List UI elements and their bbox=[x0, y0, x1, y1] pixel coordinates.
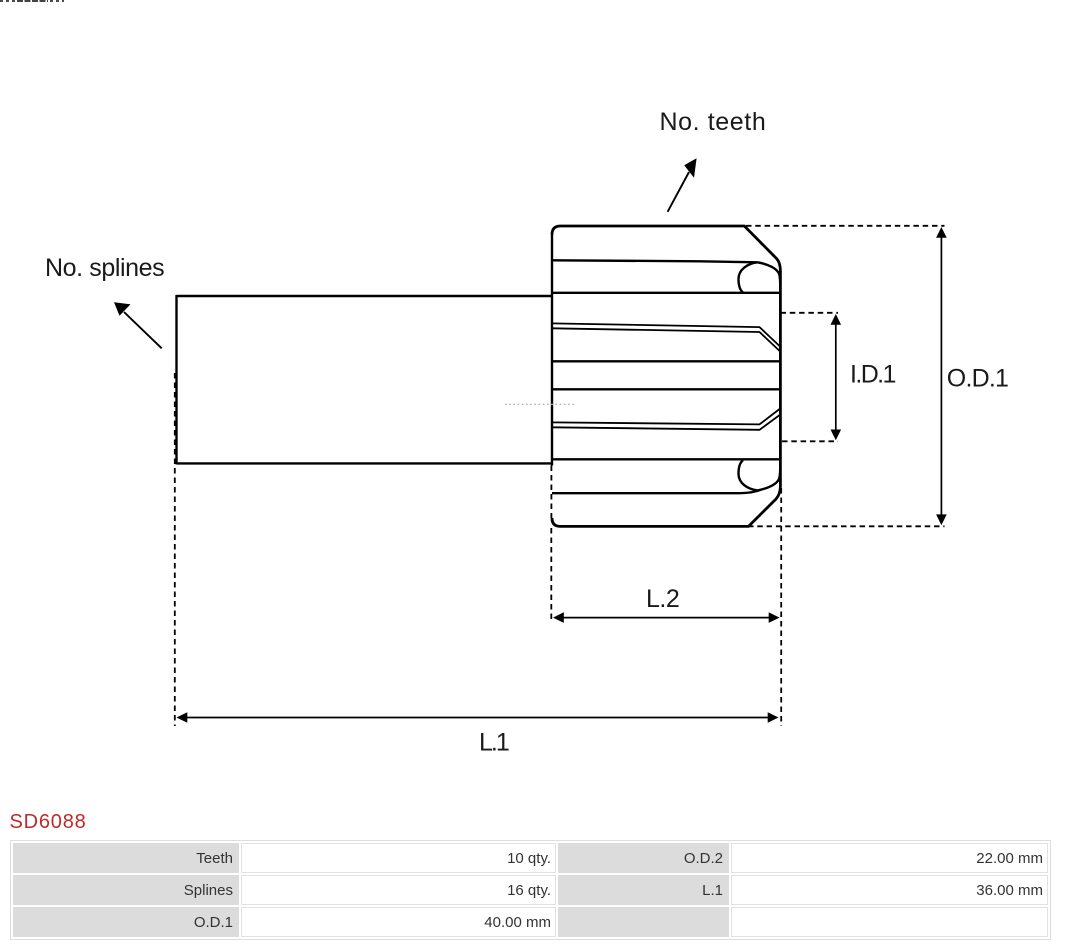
L.2 left extension dashed bbox=[550, 528, 552, 622]
top-left cropped dashed artifact bbox=[0, 0, 17, 2]
shaft outline (splined shaft) bbox=[177, 295, 553, 464]
gear tooth line 3 bbox=[552, 292, 780, 294]
gear body outline bbox=[552, 226, 780, 526]
I.D.1 extension line bottom dashed bbox=[782, 440, 838, 442]
centerline dotted bbox=[505, 403, 575, 405]
I.D.1 extension line top dashed bbox=[781, 312, 839, 314]
lower spline notch pair bbox=[552, 409, 780, 425]
O.D.1 extension line top dashed bbox=[746, 225, 945, 227]
gear left edge hidden dashed part bbox=[550, 466, 552, 519]
L.2 dimension arrow bbox=[561, 617, 771, 619]
svg-text:L.1: L.1 bbox=[479, 729, 509, 757]
svg-text:No. splines: No. splines bbox=[45, 254, 164, 282]
No. splines leader arrow bbox=[124, 312, 162, 348]
L.1 dimension arrow bbox=[184, 717, 771, 719]
svg-text:O.D.1: O.D.1 bbox=[947, 365, 1008, 393]
svg-text:I.D.1: I.D.1 bbox=[850, 360, 895, 388]
O.D.1 dimension arrow bbox=[940, 235, 942, 517]
gear tooth line 2 bbox=[552, 260, 758, 262]
gear tooth line 6 bbox=[552, 388, 780, 390]
gear left edge solid part bbox=[551, 233, 553, 466]
upper spline notch pair bbox=[552, 323, 780, 346]
part number SD6088 bbox=[10, 811, 87, 834]
right extension dashed (L.2 / L.1) bbox=[780, 488, 782, 726]
shaft left edge bbox=[175, 295, 177, 464]
bottom tooth end arc bbox=[739, 460, 758, 490]
shaft bottom edge bbox=[177, 462, 553, 464]
gear tooth line 5 bbox=[552, 360, 780, 362]
top tooth end arc bbox=[739, 262, 758, 292]
I.D.1 dimension arrow bbox=[835, 320, 837, 434]
gear tooth line 8 bbox=[552, 458, 780, 460]
gear tooth line 9 bbox=[552, 490, 761, 494]
O.D.1 extension line bottom dashed bbox=[748, 525, 945, 527]
svg-text:L.2: L.2 bbox=[646, 585, 679, 613]
shaft top edge bbox=[177, 295, 553, 297]
L.1 left extension dashed bbox=[174, 373, 176, 726]
specification table bbox=[10, 840, 1051, 940]
svg-text:No. teeth: No. teeth bbox=[660, 108, 767, 136]
No. teeth leader arrow bbox=[668, 172, 689, 212]
